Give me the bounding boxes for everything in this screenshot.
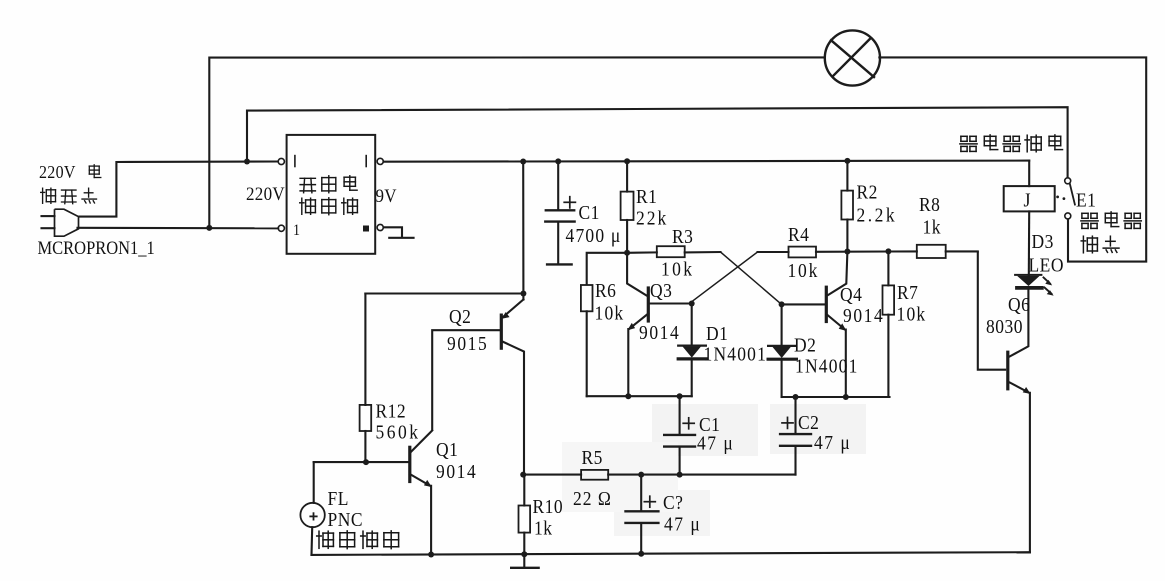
junction D2 top node xyxy=(779,301,785,307)
junction rail at R1 xyxy=(624,158,630,164)
module text yuan-mo-kuai xyxy=(301,198,303,214)
lamp EL xyxy=(825,30,880,85)
label plug line2 (yuan-cha-tou) xyxy=(42,188,44,203)
wire R8 to Q6 base xyxy=(978,251,1006,369)
wire ground rail xyxy=(312,552,1030,555)
wire plug hot to module input 1 xyxy=(79,162,279,217)
junction neutral riser node xyxy=(206,225,212,231)
junction rail at C1 4700u xyxy=(555,158,561,164)
transistor Q1 emitter lead with arrow xyxy=(410,474,430,486)
LED D3 symbol xyxy=(1015,274,1041,276)
resistor R6 10k xyxy=(581,285,593,311)
junction hot riser node xyxy=(244,159,250,165)
module text kai-guan-dian xyxy=(300,177,315,179)
svg-text:R4: R4 xyxy=(788,224,810,246)
plug body xyxy=(55,209,79,236)
capacitor C1 4700u bottom bar xyxy=(547,263,572,265)
svg-text:D1: D1 xyxy=(706,323,728,345)
svg-text:R2: R2 xyxy=(857,182,878,204)
junction Q3 emitter on bus xyxy=(625,393,631,399)
diode D1 1N4001 xyxy=(691,304,693,345)
svg-text:C?: C? xyxy=(663,492,683,514)
label + of C? xyxy=(644,501,655,503)
power module U1 box (switching supply) xyxy=(287,135,376,254)
module pin mark top-left xyxy=(294,156,296,167)
svg-text:J: J xyxy=(1024,190,1032,212)
ground chassis at module output 2 xyxy=(384,227,402,238)
svg-text:FL: FL xyxy=(328,488,349,510)
svg-text:R7: R7 xyxy=(897,282,918,304)
junction Q3 collector node xyxy=(624,250,630,256)
transistor Q6 base bar xyxy=(1006,352,1009,389)
svg-text:10k: 10k xyxy=(595,303,625,325)
plug prongs MCROPRON1_1 xyxy=(42,215,55,217)
svg-text:1k: 1k xyxy=(534,518,553,540)
wire rail to relay J top xyxy=(1028,161,1030,187)
label touch plate chu-mo-ji-ban xyxy=(318,531,320,548)
svg-text:R5: R5 xyxy=(582,447,603,469)
svg-text:9014: 9014 xyxy=(639,322,680,344)
svg-text:D2: D2 xyxy=(794,335,816,357)
svg-text:10k: 10k xyxy=(897,304,927,326)
resistor R4 10k xyxy=(758,251,789,253)
junction R10 on rail xyxy=(521,551,527,557)
resistor R5 22ohm xyxy=(581,470,608,480)
transistor Q1 base bar xyxy=(408,447,411,481)
relay contact E1 blade xyxy=(1070,184,1075,205)
svg-text:220V: 220V xyxy=(246,183,285,204)
svg-text:Q2: Q2 xyxy=(449,306,471,328)
relay contact E1 top terminal xyxy=(1065,178,1071,184)
module pin terminal input bottom xyxy=(278,225,284,231)
resistor R10 1k xyxy=(523,475,525,506)
svg-text:C1: C1 xyxy=(579,202,600,224)
wire Q1 base wire xyxy=(314,461,409,463)
svg-text:10k: 10k xyxy=(661,259,694,281)
module pin mark bottom-right xyxy=(364,226,369,231)
label chudian of E1 xyxy=(1082,236,1084,253)
junction R5 bus at Q2 collector xyxy=(520,472,526,478)
wire Q2 emitter node to R12 top xyxy=(365,292,523,294)
svg-text:MCROPRON1_1: MCROPRON1_1 xyxy=(38,237,155,258)
capacitor C1 47u xyxy=(679,396,681,434)
wire plug neutral to module input 2 xyxy=(78,227,279,230)
label + of C1 4700u xyxy=(564,201,575,203)
wire FL to Q1 base xyxy=(313,462,315,503)
transistor Q2 base bar xyxy=(500,315,503,348)
junction Q1 emitter on rail xyxy=(428,552,434,558)
junction Q4 collector node at R2 xyxy=(844,249,850,255)
svg-text:8030: 8030 xyxy=(986,316,1023,338)
transistor Q3 collector lead xyxy=(627,253,647,296)
wire Q3 collector node to R6 top xyxy=(587,253,627,285)
junction C1 47u top on bus xyxy=(677,393,683,399)
wire second rail (mains hot to relay contact E1) xyxy=(247,107,1068,177)
svg-text:220V: 220V xyxy=(39,162,76,182)
wire top rail from lamp to right edge down to relay contact loop xyxy=(878,57,1146,261)
capacitor C? 47u xyxy=(640,475,642,511)
wire 9V rail xyxy=(384,161,1030,162)
resistor R12 560k xyxy=(364,294,366,405)
svg-text:47 μ: 47 μ xyxy=(814,432,851,454)
svg-text:Q4: Q4 xyxy=(840,284,862,306)
transistor Q4 base bar xyxy=(825,287,828,321)
resistor R1 22k xyxy=(626,161,628,191)
junction D1 top node xyxy=(689,301,695,307)
svg-text:R8: R8 xyxy=(919,194,940,216)
transistor Q6 emitter lead with arrow xyxy=(1008,382,1029,393)
junction Q2 emitter node xyxy=(520,291,526,297)
svg-text:R12: R12 xyxy=(376,401,407,423)
svg-text:Q6: Q6 xyxy=(1008,294,1030,316)
svg-text:9014: 9014 xyxy=(436,461,477,483)
transistor Q6 collector lead xyxy=(1008,289,1029,357)
touch plate FL PNC xyxy=(300,503,324,527)
svg-text:560k: 560k xyxy=(376,422,421,444)
wire cross-coupling R3 to Q4 base xyxy=(721,252,782,304)
wire Q4 base to D2 node xyxy=(782,303,825,305)
svg-text:2.2k: 2.2k xyxy=(857,205,898,227)
module pin mark top-right xyxy=(365,156,367,167)
wire cross-coupling R4 to Q3 base node xyxy=(691,252,758,303)
svg-text:4700 μ: 4700 μ xyxy=(566,225,622,247)
junction R5 bus at C? xyxy=(638,472,644,478)
svg-text:Q3: Q3 xyxy=(650,280,672,302)
module pin terminal output bottom xyxy=(377,224,383,230)
wire Q3 base to D1 node xyxy=(650,302,692,304)
resistor R3 10k xyxy=(627,251,657,254)
label + of C2 47u xyxy=(782,422,793,424)
label + of C1 47u xyxy=(683,422,694,424)
svg-text:22 Ω: 22 Ω xyxy=(573,488,612,510)
svg-text:47 μ: 47 μ xyxy=(664,514,701,536)
junction C2 top on bus xyxy=(793,394,799,400)
transistor Q3 emitter lead with arrow xyxy=(630,314,649,329)
resistor R7 10k xyxy=(887,251,889,285)
svg-text:1N4001: 1N4001 xyxy=(704,344,768,366)
svg-text:10k: 10k xyxy=(788,260,820,282)
ground symbol xyxy=(523,554,525,567)
resistor R8 1k xyxy=(917,245,946,258)
svg-text:R6: R6 xyxy=(595,280,616,302)
junction Q4 emitter on bus xyxy=(843,394,849,400)
wire left emitter bus xyxy=(587,395,692,397)
svg-text:1: 1 xyxy=(293,222,300,239)
svg-text:1N4001: 1N4001 xyxy=(795,356,859,378)
svg-text:C2: C2 xyxy=(798,412,819,434)
relay contact dots xyxy=(1056,196,1059,199)
capacitor C1 4700u leads xyxy=(557,161,559,209)
junction C? on rail xyxy=(638,551,644,557)
transistor Q4 collector lead xyxy=(827,252,847,296)
transistor Q1 collector lead xyxy=(411,431,432,453)
wire R5 bus xyxy=(523,474,581,476)
wire right emitter bus xyxy=(782,396,890,398)
label relay coil jidianqi-xianquan xyxy=(961,135,967,137)
transistor Q2 emitter lead with arrow (PNP) xyxy=(522,294,524,300)
resistor R2 2.2k xyxy=(846,161,848,191)
module pin terminal output top xyxy=(377,158,383,164)
junction rail at Q2 feed xyxy=(520,159,526,165)
svg-text:22k: 22k xyxy=(636,208,668,230)
svg-text:R1: R1 xyxy=(636,186,657,208)
svg-text:1k: 1k xyxy=(923,217,942,239)
svg-text:D3: D3 xyxy=(1032,231,1054,253)
capacitor C1 4700u plates xyxy=(546,209,574,211)
svg-text:Q1: Q1 xyxy=(436,439,458,461)
svg-text:LEO: LEO xyxy=(1029,255,1064,277)
transistor Q3 base bar xyxy=(647,288,650,321)
svg-text:9015: 9015 xyxy=(447,333,488,355)
relay coil J box xyxy=(1004,186,1055,211)
wire mains neutral riser and top rail to lamp xyxy=(209,57,825,228)
svg-text:R3: R3 xyxy=(672,226,693,248)
transistor Q2 collector lead xyxy=(501,341,524,475)
wire Q2 base wire xyxy=(432,330,501,430)
svg-text:R10: R10 xyxy=(533,496,564,518)
svg-text:47 μ: 47 μ xyxy=(697,433,734,455)
junction rail at R2 xyxy=(844,158,850,164)
LED D3 light arrows xyxy=(1044,278,1051,284)
junction R5 bus at C1 47u bottom xyxy=(677,472,683,478)
wire D3 to relay J xyxy=(1028,211,1030,276)
wire 9V drop to Q2 emitter node xyxy=(522,162,524,294)
svg-text:PNC: PNC xyxy=(328,509,364,531)
junction at R7 top xyxy=(885,248,891,254)
svg-text:9V: 9V xyxy=(376,185,397,206)
svg-text:9014: 9014 xyxy=(843,305,884,327)
svg-text:E1: E1 xyxy=(1076,190,1096,212)
diode D2 1N4001 xyxy=(781,304,783,344)
junction R12 bottom at Q1 base xyxy=(363,459,369,465)
label jidianqi of E1 xyxy=(1082,212,1088,214)
relay contact E1 bottom terminal xyxy=(1065,213,1071,219)
wire FL to ground rail xyxy=(310,527,313,555)
capacitor C2 47u xyxy=(794,397,796,433)
module pin terminal input top xyxy=(278,158,284,164)
transistor Q4 emitter lead with arrow xyxy=(826,314,844,329)
